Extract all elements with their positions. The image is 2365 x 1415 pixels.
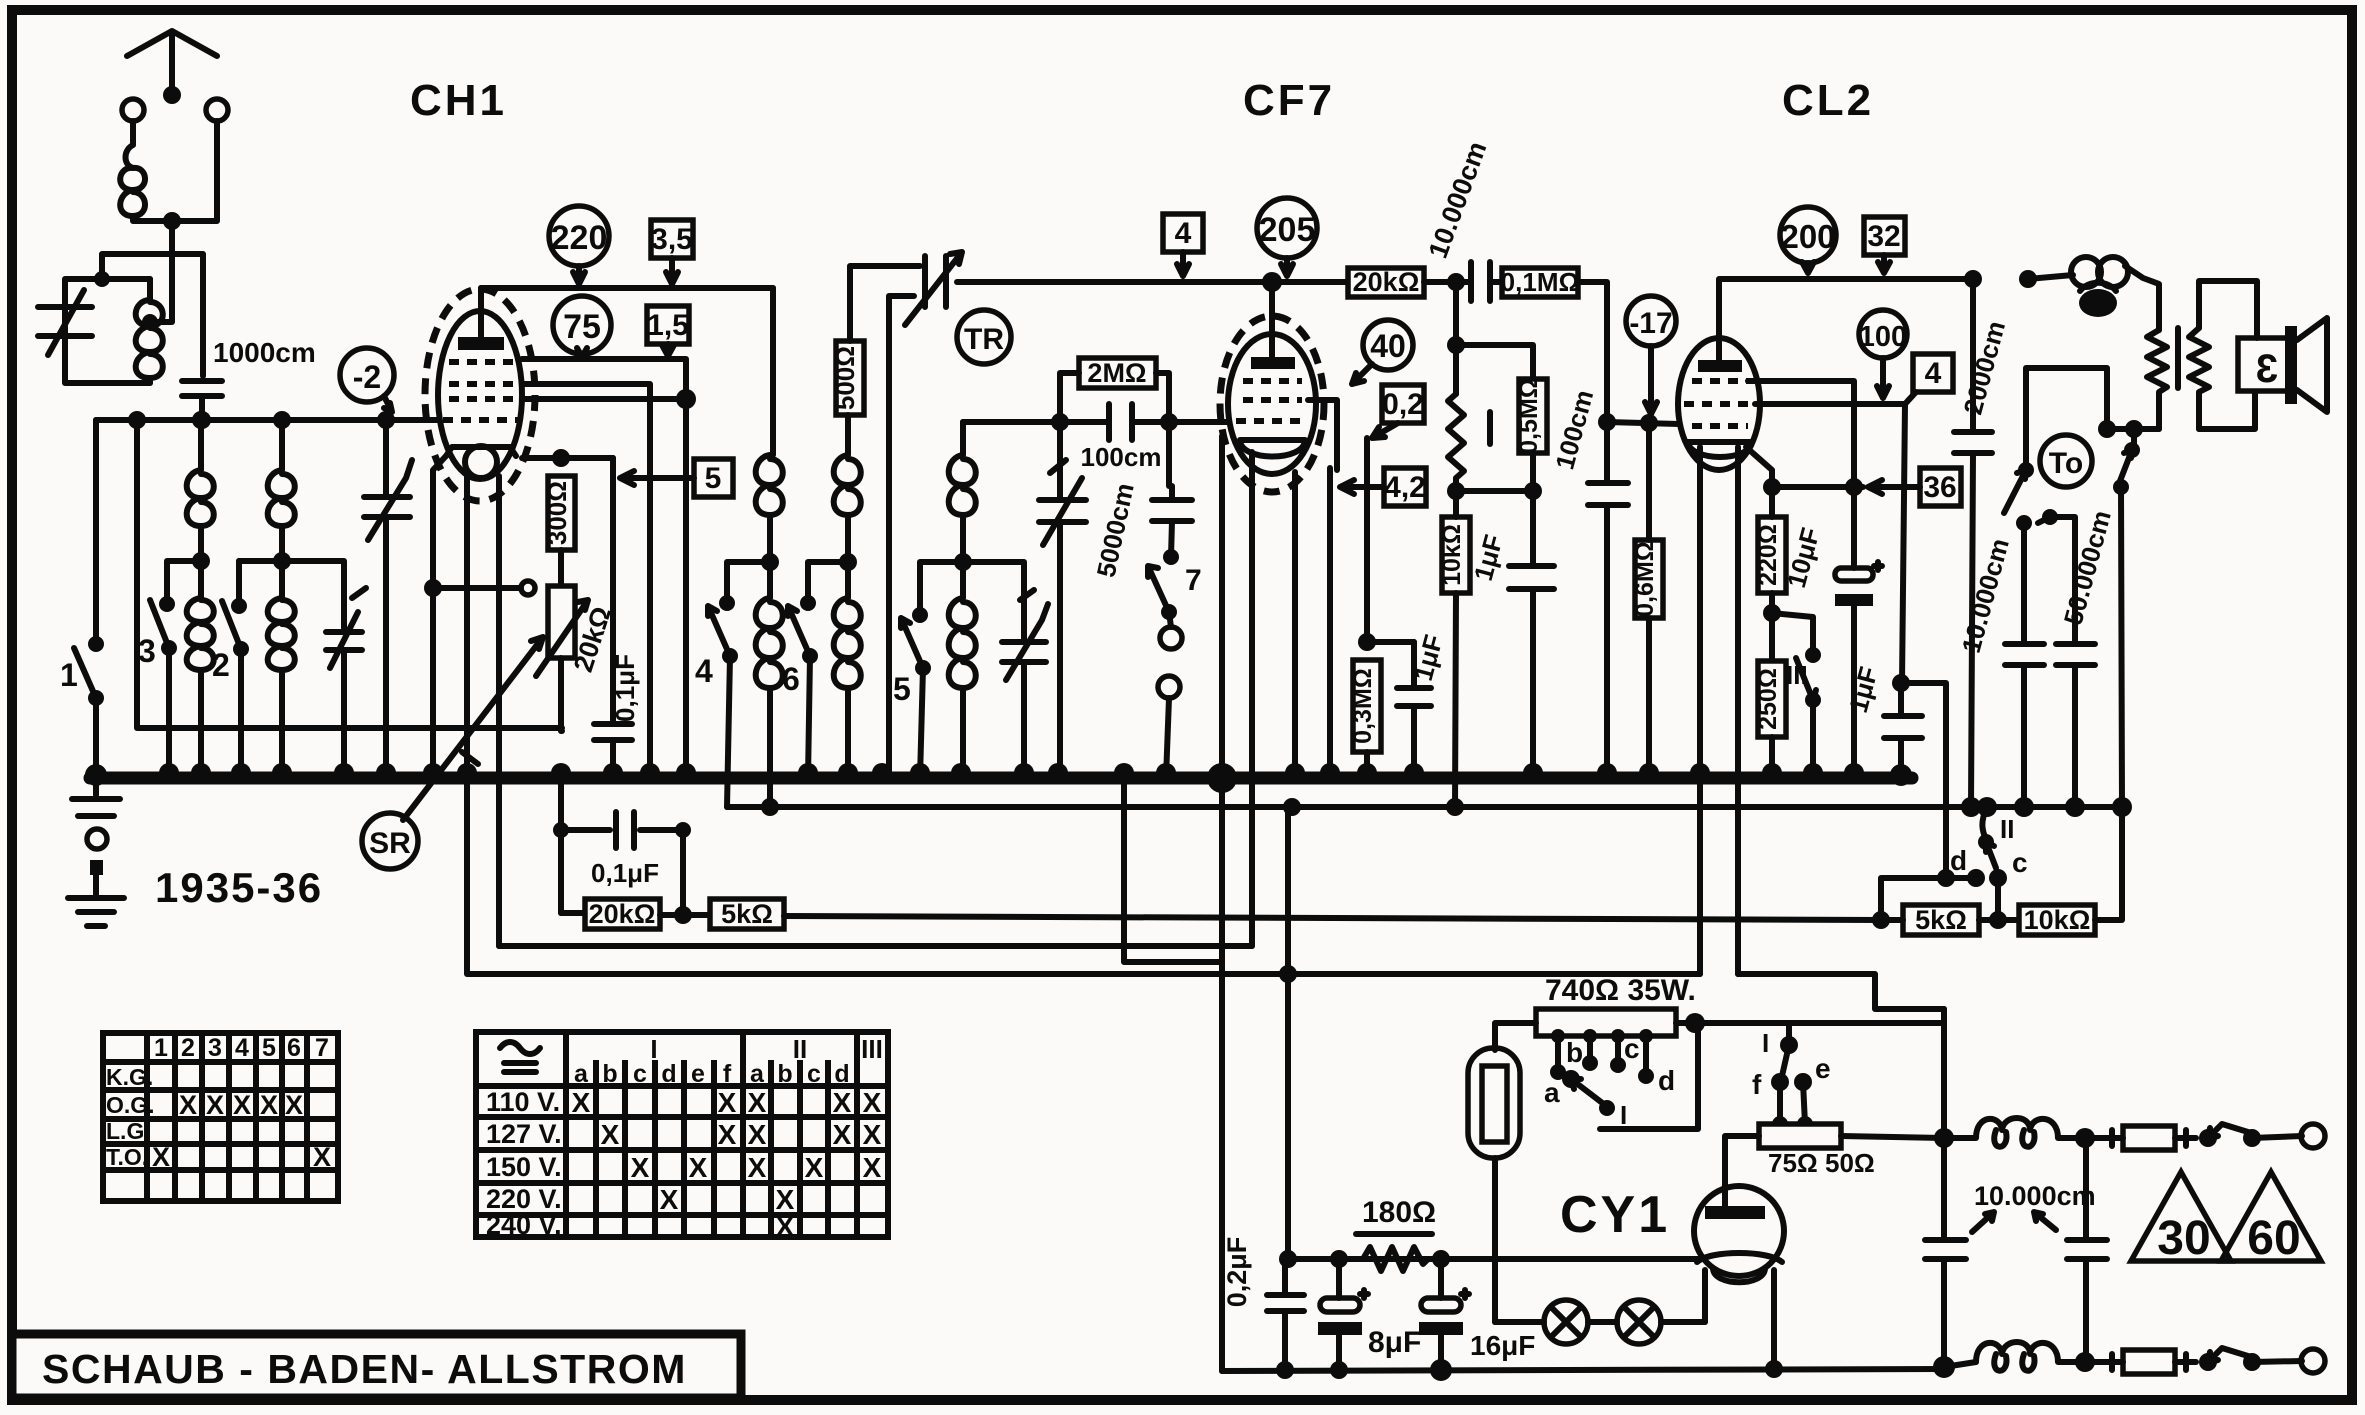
wire 20k to cap [1424,279,1468,285]
svg-text:220: 220 [551,219,608,257]
heater lamps [1544,1300,1588,1344]
svg-text:0,3MΩ: 0,3MΩ [1349,668,1377,744]
svg-text:b: b [602,1060,617,1088]
svg-text:8μF: 8μF [1368,1326,1421,1359]
table 1 row labels [106,1064,155,1170]
svg-text:220Ω: 220Ω [1754,524,1782,586]
node L2 top [273,411,291,429]
node 2M left [1051,413,1069,431]
svg-text:4: 4 [1925,357,1942,390]
wire III to bus [1810,700,1816,778]
svg-text:2: 2 [181,1034,195,1062]
wire switch7 to bus [1166,698,1169,778]
wire switch1 to bus [93,698,99,778]
wire tone switch right down [2121,487,2122,807]
tuned circuit tank outline [65,279,150,383]
trimmer capacitor plates [326,632,362,650]
resistor 2Mohm box [1079,358,1156,388]
zigzag resistor CF7 screen [1448,394,1464,491]
electrolytic 16uF body [1421,1298,1461,1312]
node tank top [94,271,110,287]
svg-text:X: X [776,1211,795,1242]
table 1 header numbers [154,1034,329,1062]
svg-text:3: 3 [2256,347,2278,391]
svg-text:4,2: 4,2 [1384,471,1426,504]
tube CL2 cathode cup [1688,442,1752,457]
svg-text:4: 4 [1175,217,1192,250]
CH1 heater legs [467,476,499,946]
main chassis bus [90,772,1912,785]
node screen divider [1447,482,1465,500]
capacitor 0,1uF plates [594,724,632,740]
svg-text:X: X [863,1087,882,1118]
wire 740 right corner down [1941,1009,1947,1138]
antenna coupling coil [120,121,145,216]
resistor 300ohm [548,476,575,550]
svg-text:1000cm: 1000cm [213,337,316,368]
tube CY1 cathode arc [1697,1253,1782,1282]
trimmer arrow [330,588,366,668]
wire pot bottom to AVC [561,658,562,731]
capacitor 0,2uF plates [1267,1295,1304,1311]
svg-text:5kΩ: 5kΩ [1915,905,1967,935]
wire grid2 row to right [522,384,650,778]
op circle -2 [340,348,394,402]
second return line [727,804,2122,810]
wire det2 top [1057,422,1063,500]
svg-text:100cm: 100cm [1549,387,1599,473]
output transformer primary [2028,266,2159,330]
svg-text:0,5MΩ: 0,5MΩ [1515,378,1543,454]
wire 5000cm top [1169,422,1172,500]
variable capacitor tank plates [38,307,92,336]
wire grid3 row to node [522,396,686,402]
variable capacitor top mid plates [925,256,946,307]
switch III link [1772,613,1813,655]
variable capacitor tank arrow [48,290,84,355]
node heater T [1279,965,1297,983]
node 220 bottom [1763,604,1781,622]
node CF7 anode [1262,272,1282,292]
switch 1 [88,636,104,652]
wire grid line CL2 [1607,422,1679,424]
switch 1 wire upper [93,420,99,644]
capacitor 100cm AF plates [1588,483,1628,505]
svg-text:10kΩ: 10kΩ [2024,905,2091,935]
svg-text:1μF: 1μF [1468,531,1509,583]
wire 0,1uF stem [610,458,616,778]
box 1,5 [647,306,689,344]
svg-text:X: X [660,1184,679,1215]
node filter top [1934,1128,1954,1148]
wire 2000cm stems [1971,279,1973,807]
svg-text:T.O.: T.O. [106,1144,148,1170]
switch 5 [920,562,963,615]
wire 740 left to urdox [1495,1023,1536,1050]
tube CF7 cathode cup [1240,440,1305,457]
wire 0,2uF stems [1282,1259,1288,1371]
svg-text:2000cm: 2000cm [1957,318,2011,418]
node screen line [676,389,696,409]
switch III [1805,647,1821,663]
capacitor 1uF screen plates [1509,566,1554,589]
meter circle 200 [1780,207,1836,263]
capacitor mains left plates [1925,1240,1966,1259]
switch 6 [808,562,848,603]
arrow 4 down [1177,252,1189,276]
svg-text:O.G.: O.G. [106,1092,155,1118]
svg-text:180Ω: 180Ω [1362,1196,1436,1229]
wire bus drop B- [1124,778,1222,962]
wire CF7 g2 to down [1308,400,1337,470]
antenna terminal right [206,99,228,121]
svg-text:1,5: 1,5 [647,309,689,342]
box 4 [1163,214,1203,252]
fuse top [2085,1130,2196,1146]
node L1 top [192,411,210,429]
terminal circle ground branch [87,829,107,849]
svg-text:CH1: CH1 [410,76,507,125]
output transformer core blob [2079,289,2117,317]
circle 100 [1859,310,1907,358]
svg-text:TR: TR [964,323,1004,356]
svg-text:X: X [601,1119,620,1150]
tube CH1 grid rows [443,362,519,420]
triangle 30 [2131,1172,2231,1261]
740 taps [1551,1029,1565,1043]
switch mains top [2199,1129,2217,1147]
svg-text:250Ω: 250Ω [1754,668,1782,730]
secondary winding zigzag [2189,328,2209,429]
coil B lower [834,562,861,778]
wire trimmer to bus [341,650,347,778]
wire anode line to coil A [770,288,776,455]
node 16uF top [1432,1250,1450,1268]
svg-text:b: b [777,1060,792,1088]
svg-text:X: X [206,1090,224,1120]
svg-text:0,1μF: 0,1μF [591,858,659,888]
node 0,2uF [1279,1250,1297,1268]
node grid line CL2 [1598,413,1616,431]
wire cathode bar [1772,484,1863,490]
wire 100cm AF stems [1604,505,1610,778]
svg-text:1: 1 [154,1034,168,1062]
box 0,2 [1382,385,1424,423]
svg-text:2MΩ: 2MΩ [1087,358,1146,388]
wire varcap right to CF7 [957,279,1272,285]
wire varcap top [383,420,389,497]
potentiometer 20k body [548,586,575,658]
potentiometer 20k arrow [536,600,588,676]
wire 100cm to tube [1132,419,1229,425]
tube CL2 anode bar [1698,360,1742,372]
svg-text:CF7: CF7 [1243,76,1335,125]
svg-text:240 V.: 240 V. [486,1210,562,1240]
wire coilC right branch [963,562,1024,642]
secondary bottom loop [2199,392,2255,429]
switch 3 [167,561,201,604]
heater line CH1-CL2 [467,778,1700,974]
wire cathode RC bar [1367,639,1414,645]
trimmer capacitor detector plates [1002,642,1046,662]
table 2 X marks [572,1087,882,1242]
node coil A center [761,553,779,571]
wire screen row down [1748,381,1854,487]
svg-text:0,2: 0,2 [1382,388,1424,421]
wire grid wire down to 1uF [1902,404,1905,683]
speaker cone [2297,318,2327,412]
svg-text:X: X [631,1152,650,1183]
capacitor 0,1uF lower [561,812,683,848]
electrolytic 8uF body [1320,1298,1360,1312]
svg-text:III: III [861,1034,883,1064]
box 4,2 [1384,468,1426,506]
svg-text:100cm: 100cm [1081,442,1162,472]
fuse bottom [2085,1354,2196,1370]
svg-text:X: X [748,1087,767,1118]
svg-text:c: c [2012,847,2028,878]
svg-text:3,5: 3,5 [651,223,693,256]
CH1 cathode leg [433,456,446,778]
wire anode line right [1272,279,1348,285]
wire grid row to 4 [1755,392,1916,404]
tube CH1 envelope [438,311,522,479]
wire CL2 heater right leg run [1738,974,1944,1009]
filter choke top [1944,1118,2085,1138]
switch 4 [727,562,770,603]
arrow 4,2 left [1340,480,1384,494]
svg-text:SR: SR [369,827,411,860]
capacitor 1uF output plates [1884,716,1922,738]
wire tone switch top feed [2023,437,2029,470]
arrow 220 down [573,266,585,284]
second line node dots [761,798,779,816]
antenna symbol [169,34,175,98]
tube CY1 anode bar [1705,1206,1765,1219]
svg-text:36: 36 [1923,471,1956,504]
CL2 legs [1700,447,1738,974]
tube CL2 grid rows [1684,381,1755,426]
svg-text:CY1: CY1 [1560,1186,1670,1244]
wire 5000cm to switch7 [1171,521,1172,557]
wire 250 to bus [1769,737,1775,778]
wire divider bar [1456,453,1533,491]
tube CY1 envelope [1694,1186,1784,1276]
table 2 group headers [650,1034,882,1064]
svg-text:X: X [833,1119,852,1150]
svg-text:I: I [1762,1028,1769,1058]
wire urdox bottom [1492,1158,1498,1322]
wire second line drop to 180ohm node [1285,807,1291,1259]
wire 0,3M to bus [1364,752,1370,778]
svg-text:a: a [574,1060,589,1088]
node cathode 1772 [1763,478,1781,496]
svg-text:50.000cm: 50.000cm [2058,507,2117,628]
svg-text:0,6MΩ: 0,6MΩ [1631,541,1659,617]
svg-text:6: 6 [782,661,800,697]
svg-text:300Ω: 300Ω [542,481,572,545]
capacitor 10.000cm tone plates [2005,644,2044,665]
node tank coil tap [142,314,158,330]
svg-text:2: 2 [212,647,230,683]
wire switch6 to second line [770,656,810,807]
arrow 32 down [1878,255,1890,273]
svg-text:6: 6 [287,1034,301,1062]
resistor 5kohm right box [1903,905,1979,935]
meter circle 205 [1257,198,1317,258]
node transformer sec tap [2098,420,2116,438]
speaker frame [2238,338,2294,391]
transformer core bars [2175,328,2181,388]
wire 0,5M top link [1456,345,1533,379]
node cap row right [675,822,691,838]
meter circle 75 [553,296,611,354]
tube CF7 shield dashed [1220,316,1324,492]
svg-text:30: 30 [2157,1212,2210,1265]
node varcap top [377,411,395,429]
svg-text:5: 5 [893,671,911,707]
svg-text:f: f [1752,1069,1762,1100]
wire to terminal bottom [2252,1361,2302,1362]
svg-text:-2: -2 [353,359,381,395]
svg-text:4: 4 [235,1034,249,1062]
svg-text:X: X [260,1090,278,1120]
node filter top right [2075,1128,2095,1148]
node cathode RC [1358,633,1376,651]
node anode line 1973 [1964,270,1982,288]
wire c down [1995,878,2001,920]
mains terminal bottom [2301,1349,2325,1373]
wire wiper to cathode line [433,585,521,591]
svg-text:d: d [1658,1065,1675,1096]
svg-text:1935-36: 1935-36 [155,864,323,911]
resistor 10kohm right box [2019,905,2095,935]
wire antenna down [169,221,175,254]
electrolytic 10uF body [1835,568,1873,581]
node 1uF top [1892,674,1910,692]
svg-text:7: 7 [1185,564,1202,597]
tank coil [136,279,163,383]
wire 300ohm to pot [558,550,564,586]
table 2 AC symbol [500,1042,540,1072]
tube CL2 wire anode up [1719,279,1973,360]
SR arrow to pot [403,637,543,820]
coil L1 upper [187,420,214,561]
table 1 X marks [152,1090,331,1172]
svg-text:X: X [285,1090,303,1120]
coil L2 upper [268,420,295,561]
svg-text:10.000cm: 10.000cm [1423,138,1493,263]
wire tap to antenna line [150,256,172,322]
svg-text:CL2: CL2 [1782,76,1874,125]
arrow 1,5 down [662,344,674,356]
lamp series wire [1495,1319,1705,1325]
antenna terminal left [122,99,144,121]
wire 10uF stems [1851,487,1857,778]
tube CH1 bottom cup [446,447,516,456]
short bar beside zigzag [1487,412,1493,444]
wire det2 bottom [1057,522,1063,778]
tube CH1 shield dashed [425,289,535,501]
bus node dots [85,764,107,786]
svg-text:10kΩ: 10kΩ [1438,524,1466,586]
long AVC feed line to right [784,916,1880,920]
electrolytic 16uF bar [1419,1322,1463,1335]
node coil B center [839,553,857,571]
switch 7 terminal circles [1160,627,1182,649]
node wiper cathode [424,579,442,597]
svg-text:X: X [863,1119,882,1150]
node coil C center [954,553,972,571]
svg-text:110 V.: 110 V. [486,1087,560,1117]
svg-text:X: X [313,1142,331,1172]
wire 1uF link to switch d [1901,683,1946,878]
svg-text:205: 205 [1259,211,1316,249]
svg-text:X: X [689,1152,708,1183]
node L1 center [192,552,210,570]
tube CF7 envelope [1228,334,1316,474]
wire 1uF bottom to bus [1898,738,1904,775]
tube CL2 envelope [1678,338,1760,470]
capacitor 100cm plates [1109,404,1132,440]
coil B upper [834,415,861,562]
capacitor 2000cm plates [1954,432,1992,453]
svg-text:a: a [750,1060,765,1088]
node screen 1854 [1845,478,1863,496]
tube CF7 grid rows [1236,381,1308,421]
SR circle [362,813,418,869]
arrows label to caps [1972,1212,2056,1232]
bottom filter line [1944,1342,2085,1367]
capacitor below bus left [72,778,120,816]
svg-text:150 V.: 150 V. [486,1152,562,1182]
arrow 100 down [1877,358,1889,398]
variable capacitor mid plates [364,497,410,517]
wire antenna coil bottom [133,121,217,221]
tone switch right [2131,429,2137,447]
mains terminal top [2301,1124,2325,1148]
wire vertical 1456 resistor chain [1453,282,1459,394]
wire 1uF output top [1898,683,1904,716]
anode supply line y288 [481,285,773,291]
svg-text:X: X [179,1090,197,1120]
wire switch4 down to return line [727,656,730,807]
svg-text:10.000cm: 10.000cm [1956,535,2015,656]
primary winding zigzag [2147,330,2167,429]
resistor 250ohm vertical [1758,661,1786,737]
svg-text:5: 5 [705,462,722,495]
node d wire 1946 [1937,869,1955,887]
wire 1uF screen stems [1530,491,1536,778]
variable capacitor det2 plates [1039,500,1086,522]
node 0,6M top [1640,414,1658,432]
arrow -17 down [1645,346,1657,414]
svg-text:10.000cm: 10.000cm [1974,1181,2096,1211]
CF7 legs [1222,436,1330,962]
wire grid line y420 [96,417,438,423]
tube CF7 anode bar [1251,357,1295,369]
svg-text:40: 40 [1370,328,1406,364]
wire anode aux row [522,455,613,461]
wire 1000cm to grid line [199,396,205,420]
arrow 5 left [620,471,694,485]
wire d left and down [1881,878,1976,920]
arrow -2 to grid line [384,396,392,412]
arrow 0,2 left [1372,423,1398,438]
node switch I top [1780,1036,1798,1054]
switch 7 [1163,549,1179,565]
pot wiper terminal [521,581,535,595]
